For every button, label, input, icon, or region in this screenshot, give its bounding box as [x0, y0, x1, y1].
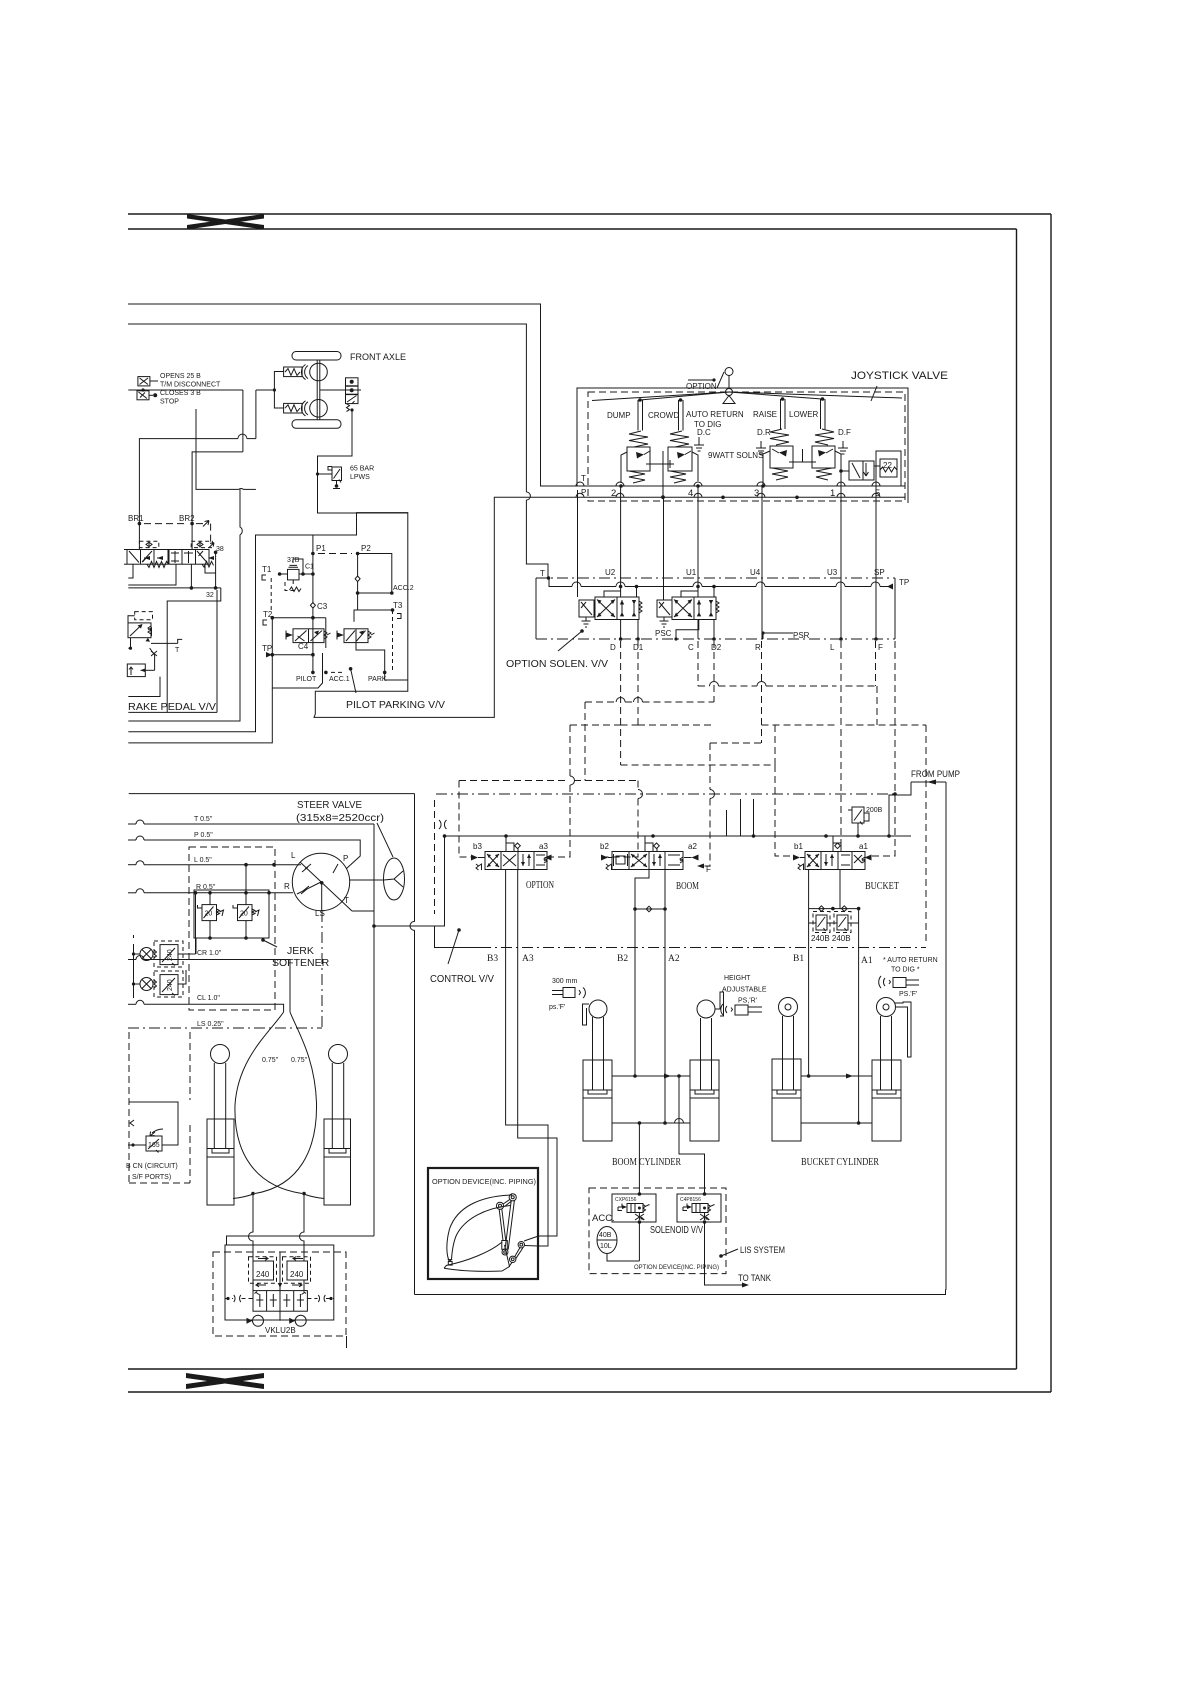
frame outer top — [128, 213, 1051, 215]
auto return bracket — [895, 1002, 911, 1057]
web V x926 — [925, 725, 927, 945]
svg-text:C: C — [688, 643, 694, 652]
control box bottom rail — [435, 926, 481, 948]
brake box outline — [128, 590, 217, 712]
svg-text:ACC.: ACC. — [592, 1213, 615, 1224]
bucket crosslink with anticav diamonds — [809, 906, 861, 912]
bucket cylinder left head — [779, 998, 798, 1017]
wire park to box — [385, 672, 408, 680]
svg-text:U2: U2 — [605, 568, 616, 577]
svg-text:TP: TP — [262, 644, 272, 653]
wire pedal drop — [128, 638, 160, 697]
wire BR1 drop — [138, 524, 140, 550]
wire P2 down to park valve — [354, 593, 358, 622]
relief 240 right — [283, 1257, 311, 1287]
orifice right — [307, 1295, 333, 1302]
svg-text:ADJUSTABLE: ADJUSTABLE — [722, 987, 767, 994]
joystick dashed box — [588, 392, 905, 501]
svg-text:B3: B3 — [487, 954, 498, 964]
steering wheel ellipse — [350, 858, 405, 900]
control box top dash-dot — [436, 793, 895, 795]
svg-text:C4P8156: C4P8156 — [680, 1197, 701, 1203]
svg-text:b1: b1 — [794, 842, 803, 851]
boom cylinder left head — [583, 1000, 608, 1025]
pedal lever — [151, 639, 182, 654]
frame right inner — [1016, 229, 1018, 1369]
wire 32 rail — [128, 552, 221, 589]
junction dots on port lines — [661, 496, 799, 500]
relief 165 — [128, 1102, 178, 1153]
tie bar dump/crowd — [646, 451, 674, 499]
svg-text:TO DIG *: TO DIG * — [891, 967, 920, 974]
LS dashed line — [128, 911, 322, 1028]
svg-text:FRONT AXLE: FRONT AXLE — [350, 352, 406, 362]
svg-text:a2: a2 — [688, 842, 697, 851]
svg-text:LIS SYSTEM: LIS SYSTEM — [740, 1245, 785, 1255]
front axle shaft — [317, 360, 320, 420]
web H6 — [459, 780, 638, 782]
svg-text:22: 22 — [883, 461, 892, 470]
svg-text:RAISE: RAISE — [753, 410, 777, 419]
TP drop — [894, 578, 896, 639]
spool block — [253, 1291, 307, 1312]
T1 dashed drop — [270, 578, 272, 612]
solenoid valve U2/D — [579, 597, 642, 627]
steer cylinder left head — [211, 1045, 230, 1064]
frame bottom inner — [128, 1368, 1017, 1370]
sensor 300mm — [549, 978, 585, 1011]
BOOM pilot stubs — [645, 836, 659, 852]
svg-text:SP: SP — [874, 568, 885, 577]
svg-text:3: 3 — [754, 488, 759, 499]
solenoid valve box C4P8156 — [677, 1194, 721, 1222]
svg-text:PILOT PARKING V/V: PILOT PARKING V/V — [346, 700, 445, 711]
svg-text:10L: 10L — [600, 1243, 612, 1250]
left drop T to lower rail — [535, 578, 537, 639]
brake caliper top — [284, 365, 308, 380]
port line CR 1.0 — [128, 950, 290, 1012]
steer cylinder right barrel — [324, 1119, 351, 1205]
svg-text:(315x8=2520ccr): (315x8=2520ccr) — [296, 813, 384, 824]
port drop 3 — [761, 486, 763, 639]
dashed box lower-left — [129, 1032, 190, 1183]
svg-text:T 0.5": T 0.5" — [194, 816, 213, 823]
pedal pilot valve — [128, 612, 153, 642]
svg-text:STEER VALVE: STEER VALVE — [297, 800, 362, 811]
check valve 240 assembly lower — [140, 970, 186, 997]
svg-text:U3: U3 — [827, 568, 838, 577]
steer section box right edge — [410, 794, 415, 1295]
port drop 4 — [697, 486, 699, 578]
leader pilot parking — [349, 667, 356, 693]
hose curve CR — [255, 1012, 317, 1194]
svg-text:P: P — [581, 488, 586, 497]
wire boom to solenoid2 — [679, 1076, 705, 1194]
orifice left — [225, 1295, 253, 1302]
svg-text:AUTO RETURN: AUTO RETURN — [686, 410, 744, 419]
node P1 — [311, 552, 315, 556]
svg-text:OPTION DEVICE(INC. PIPING): OPTION DEVICE(INC. PIPING) — [634, 1265, 719, 1271]
web V F2 — [876, 686, 878, 725]
pilot line F — [875, 641, 877, 686]
svg-text:T: T — [540, 569, 545, 578]
svg-text:P1: P1 — [316, 544, 326, 553]
svg-text:P 0.5": P 0.5" — [194, 832, 213, 839]
valve block BOOM — [601, 852, 699, 871]
wire BR2 drop — [191, 524, 193, 550]
svg-text:OPTION: OPTION — [686, 382, 717, 391]
wire to T3 — [358, 609, 393, 611]
svg-text:STOP: STOP — [160, 399, 179, 406]
ground D.F — [838, 441, 848, 454]
pressure reducer LOWER — [812, 429, 843, 480]
pilot line C — [697, 641, 699, 686]
LIS dashed box — [589, 1188, 726, 1274]
svg-text:PILOT: PILOT — [296, 676, 317, 683]
cut mark top — [187, 214, 264, 230]
svg-text:SOFTENER: SOFTENER — [272, 957, 330, 969]
control box left dashed edge — [434, 800, 436, 914]
svg-text:a3: a3 — [539, 842, 548, 851]
node P2 — [356, 552, 360, 556]
wire opens-valve supply — [128, 388, 276, 523]
wire tank return to VKLU2B — [227, 1236, 375, 1245]
cut mark bottom — [186, 1373, 264, 1389]
svg-text:D.R: D.R — [757, 428, 771, 437]
BR dashed link — [144, 523, 188, 525]
rail D (dash-dot) — [536, 638, 895, 640]
valve U1 stubs — [681, 587, 714, 598]
svg-text:ps.'F': ps.'F' — [549, 1004, 565, 1011]
valve D2 outlet — [713, 620, 715, 640]
svg-text:LOWER: LOWER — [789, 410, 819, 419]
node BR2 — [190, 522, 194, 526]
port line P 0.5 — [128, 832, 360, 869]
svg-text:CR 1.0": CR 1.0" — [197, 950, 222, 957]
staircase wire 3 — [128, 688, 272, 743]
jerk valve 20 left — [198, 893, 224, 938]
pilot line D — [620, 641, 622, 765]
wire T2 rail — [272, 617, 326, 619]
web H5 — [621, 764, 775, 766]
BR2 dashed right with arrow — [196, 521, 211, 547]
line B1 — [808, 870, 810, 1077]
bucket cylinder right rod — [881, 1016, 892, 1090]
svg-text:A1: A1 — [861, 956, 873, 966]
PSC stub — [655, 620, 699, 641]
VKLU2B dashed box — [213, 1252, 346, 1336]
svg-text:R: R — [284, 882, 290, 891]
web V x638 low — [604, 781, 638, 858]
OPTION pilot stubs — [506, 836, 520, 852]
svg-text:OPENS 25 B: OPENS 25 B — [160, 373, 201, 380]
valve U2 stubs — [604, 587, 637, 598]
svg-text:TO TANK: TO TANK — [738, 1273, 771, 1283]
svg-text:LS: LS — [315, 909, 325, 918]
steer valve circle — [284, 851, 352, 918]
svg-text:0.75": 0.75" — [262, 1057, 279, 1064]
wire pedal valve left — [127, 615, 129, 617]
bucket cylinder right head — [877, 998, 896, 1017]
svg-text:B2: B2 — [617, 954, 628, 964]
node PARK — [383, 671, 387, 675]
svg-text:40B: 40B — [599, 1232, 612, 1239]
svg-text:P2: P2 — [361, 544, 371, 553]
bucket cylinder left rod — [783, 1016, 794, 1090]
wire left port down — [249, 1194, 254, 1253]
port line P — [570, 493, 905, 497]
svg-text:PSC: PSC — [655, 629, 672, 638]
node BR1 — [138, 522, 142, 526]
svg-text:RAKE PEDAL V/V: RAKE PEDAL V/V — [128, 702, 216, 713]
svg-text:2: 2 — [611, 488, 616, 499]
boom cylinder left barrel — [583, 1060, 612, 1141]
svg-text:LS 0.25": LS 0.25" — [197, 1021, 224, 1028]
line A2 — [664, 870, 666, 1124]
svg-text:U4: U4 — [750, 568, 761, 577]
relief 240B right — [827, 912, 859, 933]
svg-text:OPTION DEVICE(INC. PIPING): OPTION DEVICE(INC. PIPING) — [432, 1179, 536, 1186]
svg-text:OPTION SOLEN. V/V: OPTION SOLEN. V/V — [506, 659, 608, 670]
svg-text:B CN (CIRCUIT): B CN (CIRCUIT) — [126, 1163, 178, 1170]
boom cyl crosslink — [633, 906, 667, 912]
C4 inner box — [272, 618, 322, 688]
ground D.C — [694, 437, 704, 451]
plugged port symbol — [439, 820, 447, 829]
TP arrow — [266, 652, 272, 658]
svg-text:4: 4 — [688, 488, 693, 499]
svg-text:HEIGHT: HEIGHT — [724, 975, 751, 982]
svg-text:9WATT SOLNS: 9WATT SOLNS — [708, 451, 763, 460]
valve C4 — [286, 629, 331, 643]
svg-text:JOYSTICK VALVE: JOYSTICK VALVE — [851, 370, 948, 382]
line B2 — [635, 870, 649, 1077]
node T2 — [271, 616, 275, 620]
P gallery drops — [727, 799, 754, 836]
pushrod RAISE — [781, 397, 786, 429]
frame right outer — [1050, 214, 1052, 1392]
front axle wheel top — [310, 363, 328, 381]
main pressure line — [443, 834, 911, 838]
steer cylinder left rod — [214, 1063, 225, 1148]
web H4 — [710, 742, 762, 744]
svg-text:DUMP: DUMP — [607, 411, 631, 420]
staircase wire 2 — [128, 696, 255, 732]
node 38 — [214, 551, 218, 555]
svg-text:300 mm: 300 mm — [552, 978, 577, 985]
line A3 — [518, 870, 557, 1237]
leader steer valve — [377, 823, 393, 857]
svg-text:T/M DISCONNECT: T/M DISCONNECT — [160, 382, 221, 389]
leader option solen — [558, 629, 584, 651]
rail D dots — [619, 637, 878, 641]
svg-text:PS,'R': PS,'R' — [738, 998, 757, 1005]
port line R 0.5 — [128, 884, 293, 895]
svg-text:D2: D2 — [711, 643, 722, 652]
axle sensor valve — [320, 378, 361, 412]
valve D outlet — [620, 620, 622, 640]
valve C outlet — [697, 620, 699, 640]
relief 240B left — [809, 912, 830, 933]
ground D.R — [756, 441, 766, 454]
sensor PS F right — [879, 976, 919, 998]
svg-text:BUCKET CYLINDER: BUCKET CYLINDER — [801, 1156, 879, 1168]
svg-text:C3: C3 — [317, 602, 328, 611]
web V x570 — [552, 725, 571, 857]
svg-text:D.F: D.F — [838, 428, 851, 437]
wire P2 to ACC.2 — [355, 554, 394, 595]
svg-text:F: F — [878, 643, 883, 652]
port drop 5 — [875, 486, 877, 639]
valve D stub — [620, 578, 622, 597]
bucket cylinder left barrel — [772, 1059, 801, 1141]
svg-text:0.75": 0.75" — [291, 1057, 308, 1064]
VKLU2B right stub — [346, 1336, 348, 1348]
port drop 2 — [620, 486, 622, 578]
web H3 right — [762, 724, 927, 726]
wire 32 drop — [167, 588, 221, 713]
svg-text:T1: T1 — [262, 565, 272, 574]
wire boom to solenoid1 — [638, 1123, 640, 1194]
supply line with jogs — [549, 578, 893, 590]
T3 dashed drop — [392, 610, 394, 670]
wire P to valve2 coil — [663, 497, 665, 600]
svg-text:1: 1 — [830, 488, 835, 499]
svg-text:T: T — [581, 474, 586, 483]
wire from pump — [889, 780, 946, 1290]
port line CL 1.0 — [128, 995, 284, 1012]
svg-text:C4: C4 — [298, 642, 309, 651]
accumulator — [597, 1227, 639, 1262]
svg-text:a1: a1 — [859, 842, 868, 851]
svg-text:CLOSES 3 B: CLOSES 3 B — [160, 390, 201, 397]
label OPTION (joystick) — [686, 372, 724, 391]
svg-text:PARK: PARK — [368, 676, 387, 683]
bottom return wire — [415, 1290, 946, 1295]
wire park valve to PARK — [356, 643, 385, 673]
svg-text:BUCKET: BUCKET — [865, 881, 899, 892]
bucket upper port line — [801, 1074, 872, 1079]
relief 240 left — [249, 1257, 277, 1287]
svg-text:P: P — [343, 854, 348, 863]
pushrod DUMP — [638, 398, 643, 430]
jerk softener dashed box — [189, 847, 275, 1010]
frame inner top — [128, 228, 1017, 230]
svg-text:ACC.1: ACC.1 — [329, 676, 350, 683]
svg-text:CROWD: CROWD — [648, 411, 679, 420]
svg-text:SOLENOID V/V: SOLENOID V/V — [650, 1225, 703, 1236]
svg-text:L: L — [830, 643, 835, 652]
svg-text:PS.'F': PS.'F' — [899, 991, 917, 998]
valve T/M disconnect (OPENS 25 B) — [138, 377, 158, 386]
T3 bracket — [397, 614, 401, 619]
svg-text:240: 240 — [290, 1270, 304, 1279]
svg-text:L 0.5": L 0.5" — [194, 857, 212, 864]
boom cylinder right barrel — [690, 1060, 719, 1141]
node T dot — [547, 576, 551, 580]
svg-text:32: 32 — [206, 592, 214, 599]
pilot line L — [840, 641, 842, 851]
port line T — [570, 482, 905, 486]
svg-text:L: L — [291, 851, 296, 860]
jerk valve 20 right — [233, 865, 259, 938]
hose curve CL — [235, 1012, 302, 1194]
solenoid valve U1/C — [657, 597, 719, 627]
svg-text:240: 240 — [256, 1270, 270, 1279]
a2 pilot F arrow — [697, 864, 711, 875]
hose left cylinder port — [233, 1195, 252, 1199]
svg-text:240B 240B: 240B 240B — [811, 934, 851, 943]
web V x775 — [775, 725, 793, 856]
svg-text:T3: T3 — [393, 601, 403, 610]
joystick T left drop — [577, 490, 579, 597]
VKLU2B solid box — [225, 1245, 334, 1320]
front axle tire bottom — [292, 420, 341, 429]
front axle wheel bottom — [310, 400, 328, 418]
svg-text:ACC.2: ACC.2 — [393, 585, 414, 592]
feed wire from steer section — [374, 836, 445, 926]
valve C stub — [697, 578, 699, 597]
svg-text:LPWS: LPWS — [350, 474, 370, 481]
svg-text:TP: TP — [899, 578, 909, 587]
front axle tire top — [292, 352, 341, 361]
park valve — [337, 629, 375, 643]
solenoid valve 22 feed — [841, 461, 874, 480]
wire B2 through valve1 — [638, 1192, 642, 1261]
T2 bracket — [263, 620, 267, 625]
svg-text:FROM PUMP: FROM PUMP — [911, 769, 960, 779]
svg-text:BR1: BR1 — [128, 514, 144, 523]
brake pilot dashed box right — [191, 541, 214, 547]
web H1 — [698, 685, 877, 687]
jerk valves solid box — [194, 890, 269, 938]
joystick outer box — [577, 388, 908, 503]
LPWS relief valve 65 BAR — [316, 467, 342, 489]
svg-text:JERK: JERK — [287, 945, 314, 957]
wire right port down — [300, 1194, 305, 1253]
relief valve 22 — [874, 451, 901, 486]
height sensor bracket — [715, 992, 724, 1016]
P1-P2 dashed — [318, 553, 352, 555]
bucket cylinder right barrel — [872, 1060, 901, 1141]
svg-text:A3: A3 — [522, 954, 534, 964]
svg-text:T: T — [175, 647, 180, 654]
line B3 — [506, 870, 548, 1247]
pressure reducer CROWD — [668, 431, 700, 488]
check valve 240 assembly upper — [140, 893, 196, 967]
grapple drawing — [444, 1194, 525, 1272]
valve block BUCKET — [793, 852, 872, 871]
T1 bracket — [262, 575, 266, 580]
svg-text:CL 1.0": CL 1.0" — [197, 995, 220, 1002]
steer cylinder right rod — [332, 1063, 343, 1148]
svg-text:S/F PORTS): S/F PORTS) — [132, 1174, 171, 1181]
steer section box top — [129, 793, 415, 795]
svg-text:BR2: BR2 — [179, 514, 195, 523]
pressure reducer RAISE — [761, 429, 793, 488]
wire A to joystick T — [128, 304, 576, 486]
svg-text:A2: A2 — [668, 954, 680, 964]
wire A2 through valve2 to tank — [703, 1192, 749, 1287]
shuttle check left — [247, 1311, 281, 1326]
steer cylinder right head — [329, 1045, 348, 1064]
svg-text:b3: b3 — [473, 842, 482, 851]
option device outer box — [428, 1168, 538, 1279]
wire P1 column — [310, 554, 315, 654]
wire LPWS down to pilot circuit — [318, 474, 408, 513]
leader jerk — [261, 938, 277, 947]
boom upper port line — [612, 1074, 690, 1079]
